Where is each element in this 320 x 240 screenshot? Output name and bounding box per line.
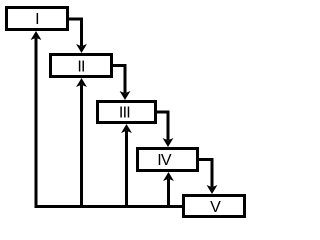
- box I: [7, 8, 68, 30]
- wire I to II: [67, 19, 87, 53]
- feedback wire to IV: [163, 172, 174, 207]
- svg-text:V: V: [210, 199, 221, 216]
- box V: [184, 196, 245, 217]
- feedback wire to III: [121, 124, 132, 207]
- box II: [51, 55, 112, 77]
- box III: [98, 102, 156, 123]
- feedback wire V to I: [31, 31, 184, 207]
- svg-text:I: I: [35, 11, 39, 28]
- wire IV to V: [197, 160, 217, 195]
- svg-text:IV: IV: [157, 152, 172, 169]
- svg-text:II: II: [77, 59, 84, 76]
- wire II to III: [111, 66, 130, 101]
- wire III to IV: [155, 112, 173, 147]
- box IV: [138, 149, 198, 171]
- feedback wire to II: [76, 78, 87, 207]
- svg-text:III: III: [119, 105, 130, 122]
